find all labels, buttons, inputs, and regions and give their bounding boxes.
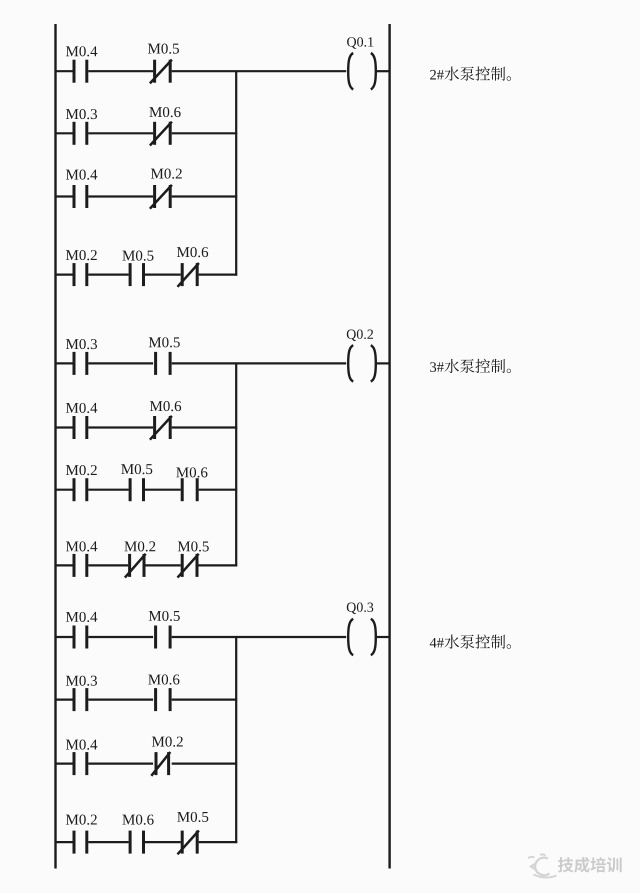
label M0.3 (n2 rung) (66, 339, 97, 349)
wire (88, 426, 153, 428)
wire (172, 636, 347, 638)
label M0.6 (n2 branch3) (176, 467, 207, 477)
NC contact M0.6 (150, 416, 172, 440)
wire (88, 698, 153, 700)
label network comment 2#水泵控制。 (430, 67, 511, 81)
NO contact M0.4 (74, 185, 87, 208)
label M0.4 (n3 rung) (66, 612, 97, 622)
NO contact M0.5 (130, 263, 143, 286)
wire (145, 274, 181, 276)
NO contact M0.2 (74, 263, 87, 286)
NC contact M0.5 (150, 60, 172, 84)
label M0.2 (n3 branch4) (66, 815, 97, 825)
wire (56, 841, 73, 843)
coil Q0.3 (348, 619, 376, 655)
label watermark text 技成培训 (558, 857, 622, 873)
wire (88, 195, 153, 197)
wire (88, 841, 128, 843)
NO contact M0.4 (74, 416, 87, 439)
wire (88, 132, 153, 134)
label Q0.2 (347, 329, 373, 341)
wire (145, 489, 181, 491)
label M0.6 (branch2) (149, 107, 180, 117)
wire (172, 698, 238, 700)
label Q0.3 (347, 602, 373, 614)
label M0.6 (n3 branch4) (122, 815, 153, 825)
NC contact M0.5 (178, 554, 199, 578)
wire (88, 362, 153, 364)
NO contact M0.4 (74, 626, 87, 649)
NC contact M0.2 (125, 554, 146, 578)
wire (199, 841, 238, 843)
label M0.2 (n2 branch3) (66, 465, 97, 475)
wire (56, 762, 73, 764)
wire (56, 70, 73, 72)
wire (172, 70, 347, 72)
wire (56, 274, 73, 276)
label M0.2 (n2 branch4) (124, 541, 155, 551)
wire (145, 841, 181, 843)
label M0.5 (n2 branch3) (121, 464, 152, 474)
NO contact M0.2 (74, 478, 87, 501)
label M0.6 (n3 branch2) (148, 674, 179, 684)
wire (56, 132, 73, 134)
NO contact M0.4 (74, 60, 87, 83)
label M0.4 (n3 branch3) (66, 740, 97, 750)
NO contact M0.6 (156, 688, 171, 711)
label M0.2 (branch3) (151, 169, 182, 179)
right power rail (388, 24, 390, 869)
label M0.2 (branch4) (66, 250, 97, 260)
NO contact M0.3 (74, 352, 87, 375)
NC contact M0.2 (151, 752, 170, 776)
wire (172, 762, 238, 764)
wire (56, 362, 73, 364)
wire (56, 426, 73, 428)
label network comment 4#水泵控制。 (430, 635, 511, 649)
NO contact M0.3 (74, 688, 87, 711)
NO contact M0.5 (130, 478, 143, 501)
label M0.4 (n2 branch2) (66, 403, 97, 413)
branch junction vertical (network 3) (235, 637, 237, 843)
branch junction vertical (network 2) (235, 363, 237, 566)
NC contact M0.6 (150, 122, 172, 146)
label Q0.1 (347, 37, 373, 49)
label M0.5 (n2 rung) (149, 337, 180, 347)
NO contact M0.5 (156, 352, 171, 375)
wire (199, 489, 238, 491)
label M0.4 (branch3) (66, 170, 97, 180)
label M0.6 (n2 branch2) (150, 401, 181, 411)
wire (88, 762, 153, 764)
wire (377, 362, 390, 364)
label M0.5 (branch4) (122, 251, 153, 261)
NO contact M0.4 (74, 554, 87, 577)
label M0.6 (branch4) (177, 247, 208, 257)
wire (88, 274, 128, 276)
label M0.5 (n3 rung) (149, 611, 180, 621)
wire (56, 636, 73, 638)
NO contact M0.6 (130, 831, 143, 854)
label M0.4 (rung1) (66, 46, 97, 56)
wire (172, 132, 238, 134)
coil Q0.1 (348, 53, 376, 89)
NO contact M0.3 (74, 122, 87, 145)
NO contact M0.4 (74, 752, 87, 775)
wire (56, 489, 73, 491)
NC contact M0.2 (150, 185, 172, 209)
wire (172, 426, 238, 428)
label network comment 3#水泵控制。 (430, 359, 511, 373)
label M0.5 (n3 branch4) (177, 812, 208, 822)
NO contact M0.2 (74, 831, 87, 854)
wire (199, 274, 238, 276)
wire (88, 636, 153, 638)
NO contact M0.5 (156, 626, 171, 649)
wire (146, 564, 181, 566)
wire (56, 698, 73, 700)
label M0.2 (n3 branch3) (152, 737, 183, 747)
NO contact M0.6 (182, 478, 197, 501)
label M0.3 (n3 branch2) (66, 676, 97, 686)
NC contact M0.6 (178, 263, 199, 287)
wire (56, 195, 73, 197)
label M0.4 (n2 branch4) (66, 541, 97, 551)
wire (56, 564, 73, 566)
wire (88, 70, 153, 72)
label M0.3 (branch2) (66, 109, 97, 119)
wire (172, 195, 238, 197)
left power rail (54, 24, 56, 869)
wire (88, 564, 128, 566)
wire (377, 636, 390, 638)
wire (377, 70, 390, 72)
wire (172, 362, 347, 364)
branch junction vertical (network 1) (235, 71, 237, 275)
label M0.5 (rung1) (148, 44, 179, 54)
watermark logo (528, 854, 557, 877)
label M0.5 (n2 branch4) (178, 541, 209, 551)
NC contact M0.5 (178, 831, 199, 855)
wire (88, 489, 128, 491)
wire (199, 564, 238, 566)
coil Q0.2 (348, 345, 376, 381)
